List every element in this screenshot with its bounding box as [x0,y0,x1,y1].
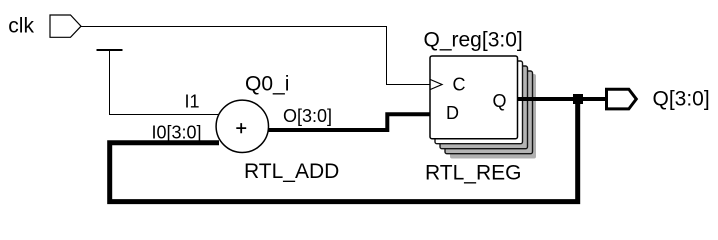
wire O to D bus [268,114,430,130]
pin label I0[3:0] [152,122,202,142]
svg-text:RTL_ADD: RTL_ADD [244,160,339,183]
wire I1 net from VCC [110,50,221,115]
pin label O[3:0] [283,106,332,126]
pin label Q [493,91,507,111]
svg-text:O[3:0]: O[3:0] [283,106,332,126]
label clk [8,15,34,38]
wire Q output bus [518,97,606,101]
plus sign [236,123,246,133]
register stack shadow [450,74,536,159]
svg-text:Q[3:0]: Q[3:0] [653,87,710,110]
instance label Q0_i [245,73,289,96]
svg-text:clk: clk [8,15,34,38]
svg-text:I1: I1 [185,92,200,112]
function label RTL_ADD [244,160,339,183]
pin label D [446,103,459,123]
svg-text:C: C [453,74,466,94]
adder Q0_i [216,100,268,152]
register Q_reg[3:0] front rect [430,56,518,139]
svg-text:I0[3:0]: I0[3:0] [152,122,202,142]
clock triangle pin C [430,80,442,90]
output port Q[3:0] [607,89,637,109]
port label Q[3:0] [653,87,710,110]
svg-text:D: D [446,103,459,123]
svg-text:RTL_REG: RTL_REG [425,162,521,185]
svg-text:Q0_i: Q0_i [245,73,289,96]
wire clk net [81,27,430,85]
pin label C [453,74,466,94]
input port clk [50,15,81,37]
instance label Q_reg[3:0] [424,29,523,52]
svg-text:Q: Q [493,91,507,111]
register Q_reg[3:0] stack back rects [435,61,533,154]
function label RTL_REG [425,162,521,185]
power VCC constant bar [97,49,123,51]
wire Q feedback loop (junction to bottom to I0) [110,104,578,202]
junction node [573,94,583,104]
svg-text:Q_reg[3:0]: Q_reg[3:0] [424,29,523,52]
pin label I1 [185,92,200,112]
